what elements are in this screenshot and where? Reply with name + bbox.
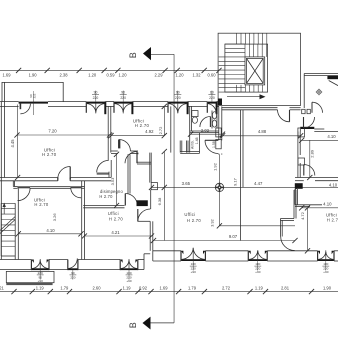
annex west wall xyxy=(303,74,305,109)
wall jog y163 xyxy=(137,161,151,163)
bottom window WB1 xyxy=(31,268,49,270)
room9 door leaf and arc xyxy=(280,237,282,250)
terrace slab xyxy=(6,271,54,282)
svg-text:100: 100 xyxy=(126,271,131,275)
dim line 2.02 xyxy=(191,133,223,135)
dimension chain top: line xyxy=(0,69,219,71)
svg-text:4.10: 4.10 xyxy=(46,228,55,233)
room8 dim line 4.10 xyxy=(302,139,338,141)
room8 north wall xyxy=(314,128,324,130)
room1 door leaf and arc xyxy=(69,167,71,180)
footprint step walls xyxy=(143,254,145,270)
svg-text:1.90: 1.90 xyxy=(29,73,38,78)
room7 south wall xyxy=(295,177,338,179)
hall west wall radiator 2 xyxy=(216,140,221,149)
partition room4-room5 xyxy=(81,181,83,260)
room5 dim line 4.21 xyxy=(84,235,151,237)
svg-text:100: 100 xyxy=(191,262,196,266)
room6 door from corridor leaf and arc xyxy=(137,209,139,222)
svg-text:4.45: 4.45 xyxy=(10,139,15,148)
side stair up arrow xyxy=(3,205,5,214)
hall door to corridor leaf and arc xyxy=(205,139,218,141)
svg-text:1.20: 1.20 xyxy=(119,73,128,78)
svg-text:100: 100 xyxy=(255,262,260,266)
bottom window WB4 xyxy=(181,259,205,261)
svg-text:2.89: 2.89 xyxy=(310,149,315,158)
wc room2 dim room 1.92 wall piece xyxy=(199,133,201,153)
svg-text:H 2.7: H 2.7 xyxy=(327,218,338,223)
svg-text:+90: +90 xyxy=(191,270,197,274)
svg-text:3.92: 3.92 xyxy=(211,219,215,226)
room9 dim line 4.72 vertical xyxy=(307,208,309,251)
wc south wall xyxy=(190,130,219,132)
svg-text:4.21: 4.21 xyxy=(111,230,120,235)
staircase elevator outer xyxy=(245,57,265,85)
room6 west dark wall piece xyxy=(137,200,148,206)
room6 dim line 9.07 xyxy=(154,240,296,242)
svg-text:+90: +90 xyxy=(323,270,329,274)
staircase elevator X xyxy=(247,58,264,83)
svg-text:90: 90 xyxy=(94,91,98,95)
svg-text:1.19: 1.19 xyxy=(255,285,264,290)
room1 south wall upper face xyxy=(0,177,58,179)
svg-text:+90: +90 xyxy=(126,279,132,283)
svg-text:+90: +90 xyxy=(255,270,261,274)
svg-text:B: B xyxy=(128,322,138,328)
wc west wall xyxy=(189,106,191,152)
annex door leaf diagonal xyxy=(329,81,338,86)
svg-text:90: 90 xyxy=(121,91,125,95)
annex thick wall piece xyxy=(327,75,338,79)
svg-text:220: 220 xyxy=(70,276,75,280)
staircase walk line and arrow xyxy=(227,96,261,98)
svg-text:1.19: 1.19 xyxy=(36,285,45,290)
svg-text:2.72: 2.72 xyxy=(158,126,163,135)
svg-text:4.72: 4.72 xyxy=(300,211,305,220)
bottom window WB5 xyxy=(248,259,267,261)
svg-text:2.72: 2.72 xyxy=(222,285,231,290)
room1 dim line 4.45 vertical xyxy=(17,105,19,178)
svg-text:2.60: 2.60 xyxy=(93,285,102,290)
P1 south door arc xyxy=(97,160,109,172)
svg-text:H 2.70: H 2.70 xyxy=(34,202,49,207)
svg-text:Uffici: Uffici xyxy=(108,211,119,216)
svg-text:220: 220 xyxy=(209,96,215,100)
room7 east wall pilaster 2 xyxy=(298,158,305,165)
annex interior door arc xyxy=(311,102,313,113)
annex north wall xyxy=(304,73,338,75)
svg-text:1.90: 1.90 xyxy=(323,285,332,290)
dimension chain bottom: ticks xyxy=(11,289,16,294)
room4 north wall left jog xyxy=(12,181,14,187)
room7 east wall xyxy=(297,132,299,178)
svg-text:4.10: 4.10 xyxy=(327,134,336,139)
svg-text:1.32: 1.32 xyxy=(193,73,202,78)
svg-text:2.38: 2.38 xyxy=(60,73,69,78)
room4 dim line 4.10 xyxy=(18,233,81,235)
section arrow bottom: shaft xyxy=(151,322,175,324)
svg-text:2.81: 2.81 xyxy=(281,285,290,290)
staircase treads left flight xyxy=(219,57,245,92)
corridor east door leaf and arc xyxy=(128,194,130,206)
svg-text:3.65: 3.65 xyxy=(182,181,191,186)
room2 south wall xyxy=(111,150,118,152)
left exterior wall inner face xyxy=(4,82,6,177)
bottom wall west outer face xyxy=(0,269,31,271)
room1 south wall lower face xyxy=(0,180,58,182)
svg-text:1.79: 1.79 xyxy=(188,285,197,290)
svg-text:+90: +90 xyxy=(38,279,44,283)
stair door leaf and arc xyxy=(278,109,290,111)
svg-text:220: 220 xyxy=(175,96,181,100)
svg-text:1.79: 1.79 xyxy=(60,285,69,290)
svg-text:1.48: 1.48 xyxy=(195,137,199,144)
entry door D1 leaf xyxy=(19,103,21,109)
room8 dim line 2.89 vertical xyxy=(309,140,311,177)
room6 north dim line xyxy=(219,225,295,227)
svg-text:100: 100 xyxy=(323,262,328,266)
dim line 1.92 vertical xyxy=(218,154,220,183)
room8 door leaf and arc xyxy=(303,165,305,176)
room9 west wall xyxy=(294,189,296,205)
staircase treads top inner band xyxy=(245,44,267,57)
hall east wall xyxy=(240,110,242,241)
bottom wall west inner face xyxy=(0,259,31,261)
room4 door DB leaf and arc xyxy=(71,186,81,188)
corridor dim line 3.53 vertical xyxy=(116,154,118,205)
stair south wall xyxy=(222,107,278,109)
svg-text:H 2.70: H 2.70 xyxy=(187,218,202,223)
wc fixtures right column xyxy=(212,112,216,119)
section line B-B vertical xyxy=(173,54,175,323)
section arrow top: head xyxy=(143,47,151,60)
svg-text:1.19: 1.19 xyxy=(123,285,132,290)
side stair break line xyxy=(0,217,15,231)
wc toilet fixture xyxy=(192,111,198,117)
room2 door P1 leaf and arc xyxy=(118,140,120,149)
svg-text:1.69: 1.69 xyxy=(3,73,12,78)
svg-text:3.53: 3.53 xyxy=(110,177,115,186)
grid node flower xyxy=(215,183,223,191)
svg-text:3.26: 3.26 xyxy=(52,213,57,222)
staircase ring box xyxy=(225,44,268,92)
window W4 xyxy=(207,102,216,104)
svg-text:2.29: 2.29 xyxy=(155,73,164,78)
top exterior wall outer face xyxy=(0,101,19,103)
window W2 xyxy=(114,102,132,104)
svg-text:4.47: 4.47 xyxy=(254,181,263,186)
staircase treads bottom band xyxy=(237,85,263,92)
room9 west wall jog xyxy=(281,218,295,220)
room6 west wall upper stub xyxy=(150,190,152,209)
room6 west wall xyxy=(149,221,151,251)
hall west wall radiator 1 xyxy=(216,128,221,137)
svg-text:0.60: 0.60 xyxy=(208,73,217,78)
staircase treads top outer band xyxy=(237,33,267,44)
svg-text:1.92: 1.92 xyxy=(212,162,217,171)
room1 door jamb xyxy=(57,178,59,181)
entry door D1 lintel xyxy=(19,102,48,104)
window W3 xyxy=(168,102,188,104)
dim line 3.65 xyxy=(152,186,216,188)
bottom window WB6 xyxy=(318,259,334,261)
svg-text:0.92: 0.92 xyxy=(139,285,148,290)
hall west wall xyxy=(218,106,220,140)
svg-text:220: 220 xyxy=(93,96,99,100)
dim line 6.38 vertical xyxy=(163,152,165,241)
dimension chain top: ticks xyxy=(16,68,21,73)
antibagno walls xyxy=(179,141,181,153)
svg-text:220: 220 xyxy=(120,96,126,100)
room4 north wall xyxy=(13,186,17,188)
svg-text:4.10: 4.10 xyxy=(323,201,332,206)
svg-text:1.69: 1.69 xyxy=(160,285,169,290)
room7 dim line 4.88 xyxy=(223,135,301,137)
corridor east wall xyxy=(127,154,129,193)
annex door arc xyxy=(303,117,305,128)
svg-text:7.20: 7.20 xyxy=(48,129,57,134)
P1 south door corner post xyxy=(108,172,110,178)
room2 east wall xyxy=(170,106,172,152)
door at jog leaf and arc xyxy=(136,152,138,164)
svg-text:9.07: 9.07 xyxy=(229,234,238,239)
svg-text:1.20: 1.20 xyxy=(176,73,185,78)
wall x150 segment xyxy=(149,163,151,183)
top exterior wall inner face xyxy=(0,105,19,107)
room7 SE wall block xyxy=(295,183,303,189)
svg-text:4.92: 4.92 xyxy=(145,129,154,134)
dim line 2.72 vertical xyxy=(163,106,165,135)
svg-text:H 2.70: H 2.70 xyxy=(109,217,124,222)
svg-text:H 2.70: H 2.70 xyxy=(42,152,57,157)
room9 north wall xyxy=(295,204,322,206)
room1 dim line 7.20 xyxy=(17,134,110,136)
bottom wall east outer face xyxy=(153,260,181,262)
left exterior wall outer face xyxy=(0,102,2,260)
svg-text:H 2.70: H 2.70 xyxy=(135,123,150,128)
svg-text:60: 60 xyxy=(210,91,214,95)
entry canopy rectangle top-left xyxy=(2,82,63,101)
section arrow top: shaft xyxy=(151,53,174,55)
room2 SE wall jog xyxy=(149,153,151,163)
svg-text:B: B xyxy=(128,52,138,58)
svg-text:90: 90 xyxy=(176,91,180,95)
bottom window WB3 xyxy=(120,268,138,270)
annex door to plan jambs xyxy=(302,109,305,113)
room7 east wall pilaster 1 xyxy=(298,128,305,137)
svg-text:6.38: 6.38 xyxy=(157,197,162,206)
dim line 4.10 far right xyxy=(297,186,338,188)
dim line 4.47 xyxy=(224,186,298,188)
room8 north wall thick xyxy=(300,127,314,129)
bottom wall east inner face xyxy=(153,250,181,252)
svg-text:H 2.70: H 2.70 xyxy=(99,194,113,199)
P1 south door leaf open xyxy=(97,173,109,175)
room9 dim line 4.10 xyxy=(302,207,338,209)
bottom window WB2 xyxy=(68,268,78,270)
staircase treads corner grid xyxy=(225,44,245,53)
west wall pilaster box xyxy=(151,183,157,190)
svg-text:2.02: 2.02 xyxy=(201,128,210,133)
section arrow bottom: head xyxy=(143,317,151,330)
svg-text:0.59: 0.59 xyxy=(107,73,116,78)
room2 dim line 4.92 xyxy=(111,135,164,137)
partition P1 vertical xyxy=(107,106,109,160)
staircase outer box xyxy=(218,33,300,105)
svg-text:4.88: 4.88 xyxy=(258,129,267,134)
side stair treads xyxy=(1,203,15,246)
room4 door DA leaf and arc xyxy=(18,186,31,188)
svg-text:90: 90 xyxy=(71,271,75,275)
annex level marker xyxy=(317,90,321,94)
staircase SW corner wall xyxy=(218,99,222,106)
wc door leaf and arc xyxy=(209,117,211,128)
svg-text:9.17: 9.17 xyxy=(233,177,238,186)
side stair walls xyxy=(0,203,2,256)
staircase elevator inner xyxy=(247,58,264,83)
entry door D1 swing arc xyxy=(20,104,30,114)
dimension chain bottom: line xyxy=(0,291,338,293)
svg-text:4.10: 4.10 xyxy=(329,182,338,187)
entry door D1 leader line xyxy=(32,100,34,116)
window W1 xyxy=(86,102,105,104)
corridor south wall xyxy=(83,205,124,207)
svg-text:Uffici: Uffici xyxy=(184,212,195,217)
svg-text:1.20: 1.20 xyxy=(88,73,97,78)
